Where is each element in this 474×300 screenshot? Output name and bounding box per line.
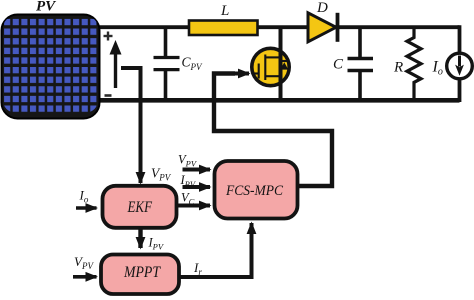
- svg-text:D: D: [316, 0, 328, 16]
- svg-text:CPV: CPV: [182, 55, 204, 73]
- svg-text:VPV: VPV: [74, 254, 94, 271]
- svg-text:IPV: IPV: [180, 173, 197, 189]
- arrow: I_o input to EKF: [76, 206, 97, 210]
- svg-text:FCS-MPC: FCS-MPC: [225, 183, 284, 199]
- wire: I_r from MPPT to FCS-MPC: [179, 232, 252, 277]
- diode D: [308, 13, 338, 42]
- svg-text:VC: VC: [181, 191, 195, 207]
- svg-text:R: R: [393, 60, 403, 76]
- svg-text:VPV: VPV: [151, 166, 172, 183]
- svg-text:C: C: [333, 57, 344, 73]
- wire: Vpv tap to EKF input: [121, 68, 141, 170]
- arrow: V_PV input to MPPT: [73, 275, 97, 279]
- wire: top rail from PV plus terminal to output: [99, 25, 460, 29]
- transistor Q1: MOSFET switch in circle: [252, 27, 289, 101]
- resistor R: [407, 27, 421, 101]
- svg-text:IPV: IPV: [148, 236, 165, 252]
- arrow: V_PV stub into FCS-MPC: [183, 168, 211, 172]
- inductor L: [189, 21, 258, 36]
- capacitor C: [348, 27, 374, 101]
- svg-text:L: L: [220, 3, 229, 19]
- arrow: V_C from EKF to FCS-MPC: [177, 204, 210, 208]
- wire: gate drive from FCS-MPC to MOSFET gate: [214, 74, 332, 187]
- svg-text:PV: PV: [36, 0, 57, 15]
- svg-text:VPV: VPV: [178, 153, 198, 169]
- current source Io: [447, 53, 473, 79]
- wire: right output branch: [458, 25, 462, 102]
- arrow: I_PV from EKF to MPPT: [138, 229, 142, 248]
- arrow: Vpv sense arrow (upward): [110, 40, 122, 88]
- block FCS-MPC: [215, 161, 298, 219]
- svg-text:Io: Io: [79, 188, 89, 205]
- block MPPT: [101, 255, 179, 295]
- svg-text:Ir: Ir: [193, 260, 202, 277]
- capacitor C_PV: [154, 27, 180, 101]
- wire: bottom rail from PV minus terminal to output: [99, 98, 460, 103]
- svg-text:Io: Io: [432, 59, 443, 78]
- arrow: I_PV stub into FCS-MPC: [183, 185, 211, 189]
- block EKF: [103, 186, 177, 228]
- node: plus terminal: [104, 32, 113, 41]
- svg-text:EKF: EKF: [127, 199, 153, 216]
- solar panel PV body: [2, 15, 100, 119]
- node: minus terminal: [105, 94, 112, 97]
- svg-text:MPPT: MPPT: [123, 264, 161, 281]
